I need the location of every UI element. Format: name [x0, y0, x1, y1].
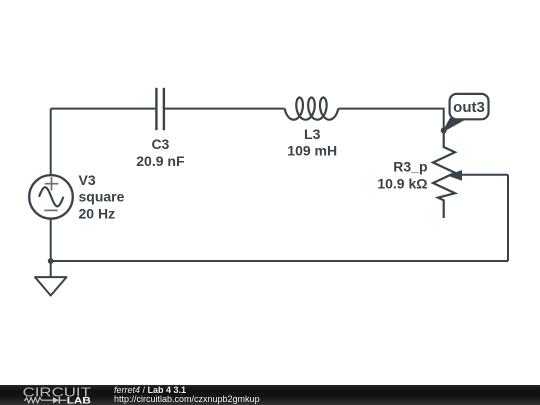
- svg-text:square: square: [79, 189, 125, 205]
- wire left vertical top: [50, 109, 52, 176]
- svg-text:R3_p: R3_p: [393, 159, 427, 175]
- node out3 flag pointer: [444, 119, 466, 131]
- wire right vertical: [507, 175, 509, 261]
- node junction dot ground: [48, 258, 54, 264]
- svg-text:109 mH: 109 mH: [287, 143, 337, 159]
- node out3 flag box: [450, 94, 489, 119]
- svg-text:20.9 nF: 20.9 nF: [136, 153, 185, 169]
- node out3 dot: [441, 128, 447, 134]
- potentiometer wiper arrow: [447, 170, 462, 181]
- wire wiper horizontal: [461, 174, 509, 176]
- ground: [35, 277, 67, 295]
- wire inductor to corner and down to node: [338, 109, 444, 131]
- svg-text:20 Hz: 20 Hz: [79, 205, 116, 221]
- wire cap to inductor: [165, 108, 285, 110]
- svg-text:10.9 kΩ: 10.9 kΩ: [377, 176, 427, 192]
- svg-text:C3: C3: [151, 136, 169, 152]
- voltage source V3 minus sign: [44, 209, 57, 211]
- wire ground stub: [50, 261, 52, 277]
- capacitor C3: [156, 88, 164, 130]
- wire left vertical bottom: [50, 218, 52, 261]
- voltage source V3 circle: [29, 175, 73, 219]
- potentiometer R3_p: [433, 131, 455, 219]
- wire bottom horizontal: [51, 260, 508, 262]
- voltage source V3 plus sign: [45, 177, 59, 190]
- inductor L3: [285, 98, 338, 120]
- voltage source V3 sine wave: [39, 187, 63, 206]
- svg-text:out3: out3: [453, 99, 485, 116]
- svg-text:V3: V3: [79, 172, 96, 188]
- svg-text:L3: L3: [304, 126, 321, 142]
- wire top-left horizontal: [51, 108, 156, 110]
- svg-text:LAB: LAB: [67, 395, 91, 405]
